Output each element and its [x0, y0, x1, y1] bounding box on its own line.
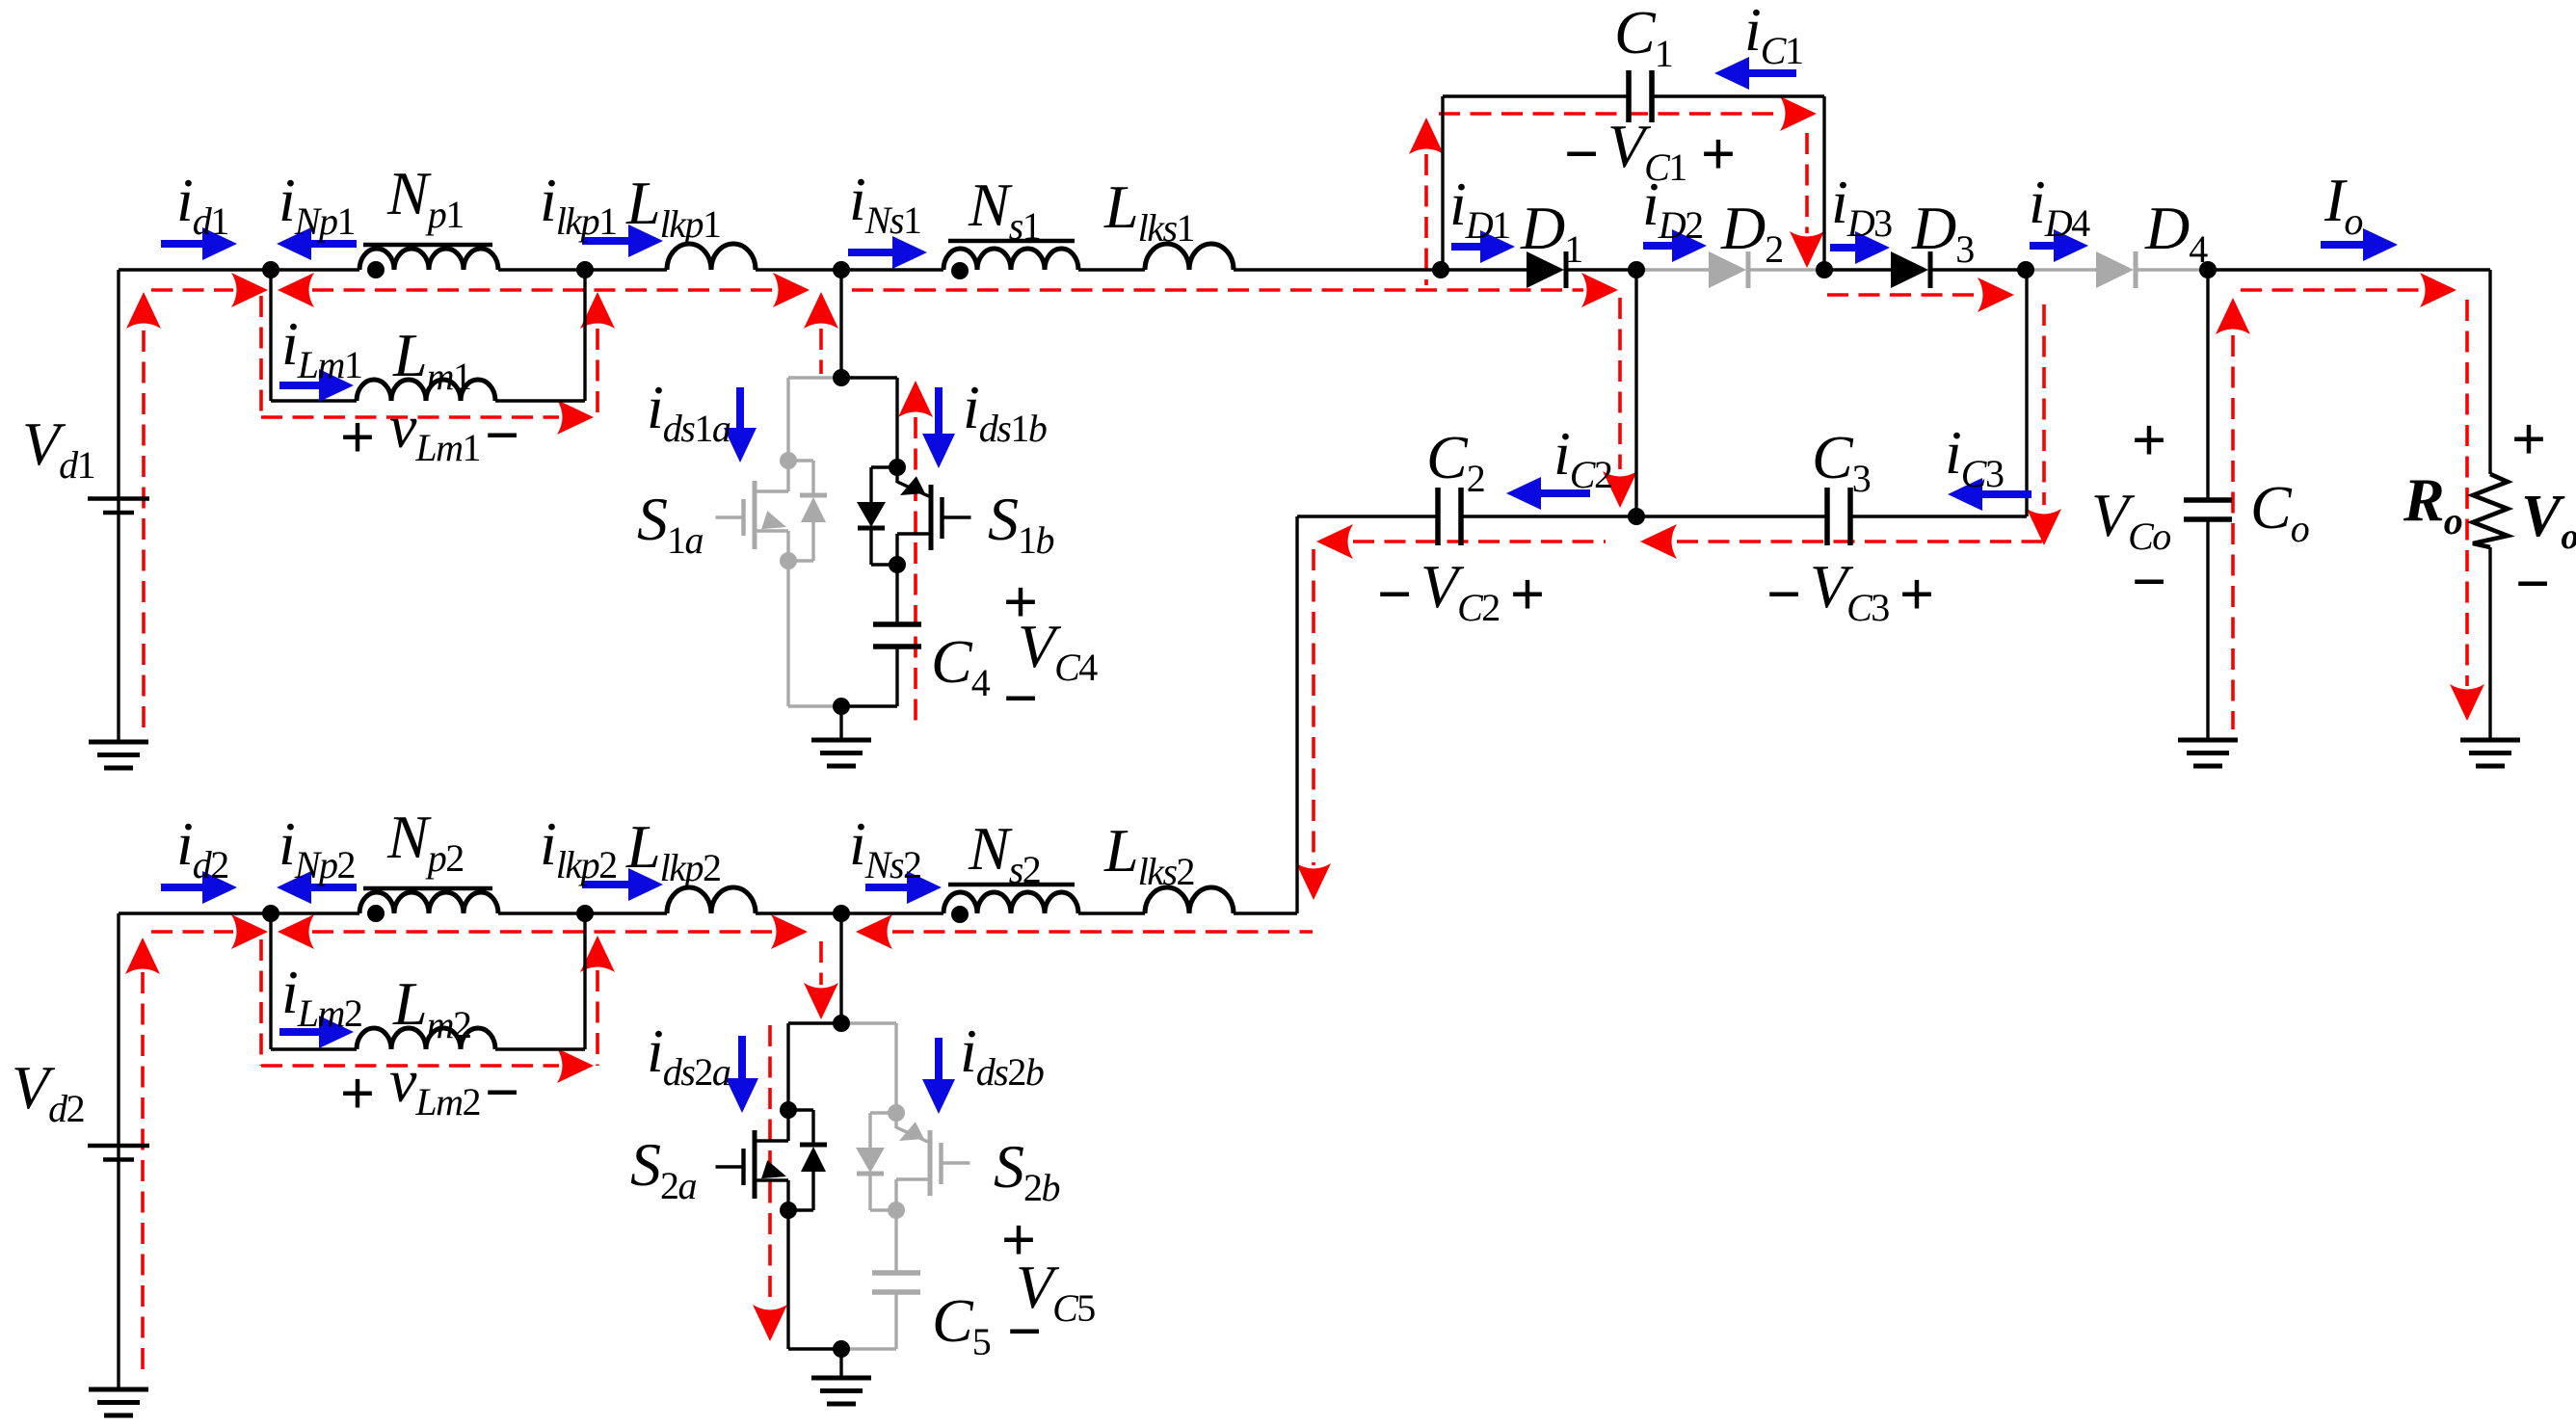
svg-text:iC2: iC2: [1554, 419, 1611, 496]
svg-text:C3: C3: [1812, 423, 1871, 500]
svg-text:ids1b: ids1b: [963, 373, 1047, 450]
svg-text:iD3: iD3: [1831, 168, 1892, 245]
svg-text:Ns2: Ns2: [968, 814, 1040, 891]
svg-text:iNp2: iNp2: [279, 809, 355, 886]
svg-text:Llkp1: Llkp1: [625, 169, 720, 246]
svg-text:iLm1: iLm1: [281, 309, 361, 386]
svg-text:Llkp2: Llkp2: [625, 812, 720, 889]
svg-text:−: −: [485, 401, 519, 469]
svg-text:−: −: [1377, 560, 1412, 628]
svg-text:id2: id2: [176, 809, 228, 886]
svg-text:Lm2: Lm2: [392, 969, 470, 1046]
svg-text:+: +: [340, 403, 375, 471]
svg-text:+: +: [340, 1059, 375, 1127]
svg-text:S1b: S1b: [988, 485, 1054, 562]
svg-text:ids2b: ids2b: [960, 1017, 1044, 1094]
svg-text:D1: D1: [1520, 194, 1582, 271]
svg-text:Vo: Vo: [2521, 484, 2576, 557]
svg-text:S1a: S1a: [637, 485, 704, 562]
svg-text:+: +: [2511, 405, 2546, 473]
svg-text:−: −: [2132, 547, 2166, 616]
svg-text:S2a: S2a: [630, 1130, 697, 1207]
svg-text:iNp1: iNp1: [279, 166, 355, 243]
svg-text:−: −: [1766, 560, 1801, 628]
svg-text:ids2a: ids2a: [647, 1017, 730, 1094]
svg-text:Ro: Ro: [2403, 465, 2462, 542]
svg-text:−: −: [2515, 549, 2550, 618]
svg-text:vLm2: vLm2: [389, 1046, 480, 1123]
svg-text:+: +: [2132, 406, 2166, 474]
svg-text:−: −: [1007, 1297, 1042, 1365]
svg-text:Vd1: Vd1: [22, 410, 94, 487]
svg-text:S2b: S2b: [994, 1132, 1060, 1209]
svg-text:Ns1: Ns1: [968, 171, 1040, 248]
svg-text:Lm1: Lm1: [392, 321, 470, 398]
svg-text:D2: D2: [1720, 194, 1783, 271]
svg-text:D3: D3: [1911, 194, 1974, 271]
svg-text:−: −: [1564, 119, 1599, 188]
svg-text:C4: C4: [931, 627, 991, 704]
svg-text:−: −: [1003, 664, 1038, 732]
svg-text:Llks1: Llks1: [1103, 172, 1194, 250]
svg-text:Np2: Np2: [386, 803, 464, 880]
svg-text:vLm1: vLm1: [389, 392, 480, 469]
svg-text:VCo: VCo: [2091, 481, 2170, 558]
svg-text:VC3: VC3: [1810, 552, 1889, 629]
svg-text:−: −: [485, 1058, 519, 1126]
svg-text:+: +: [1899, 560, 1934, 628]
svg-text:Vd2: Vd2: [12, 1053, 84, 1130]
svg-text:+: +: [1510, 560, 1545, 628]
svg-text:+: +: [1701, 119, 1736, 188]
svg-text:Np1: Np1: [386, 159, 464, 236]
svg-text:ilkp2: ilkp2: [540, 809, 617, 886]
svg-text:D4: D4: [2144, 194, 2208, 271]
svg-text:C1: C1: [1614, 0, 1672, 75]
svg-text:iNs1: iNs1: [849, 165, 921, 242]
svg-text:iC1: iC1: [1744, 0, 1802, 72]
svg-text:Io: Io: [2324, 166, 2362, 243]
svg-text:iD1: iD1: [1449, 170, 1510, 247]
svg-text:id1: id1: [176, 166, 228, 243]
svg-text:Co: Co: [2250, 473, 2309, 550]
svg-text:iD4: iD4: [2029, 168, 2090, 245]
svg-text:ilkp1: ilkp1: [540, 166, 617, 243]
svg-text:iLm2: iLm2: [281, 958, 361, 1035]
svg-text:iC3: iC3: [1945, 418, 2004, 495]
svg-text:C2: C2: [1426, 423, 1484, 500]
svg-text:VC2: VC2: [1421, 552, 1500, 629]
svg-text:Llks2: Llks2: [1103, 816, 1194, 893]
svg-text:ids1a: ids1a: [647, 373, 730, 450]
svg-text:iNs2: iNs2: [849, 809, 921, 886]
svg-text:C5: C5: [932, 1286, 991, 1363]
